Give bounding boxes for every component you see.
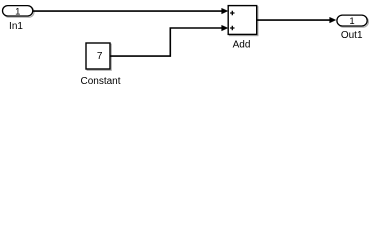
plus sign port 1 <box>230 11 234 15</box>
inport In1 <box>3 6 35 32</box>
wire In1 to Add input 1 <box>33 8 228 14</box>
svg-text:Constant: Constant <box>80 76 120 87</box>
svg-text:Add: Add <box>233 39 251 50</box>
wire Constant to Add input 2 <box>110 25 228 56</box>
outport Out1 <box>337 15 369 41</box>
svg-text:1: 1 <box>349 16 354 27</box>
svg-text:In1: In1 <box>9 21 23 32</box>
constant block Constant, value 7 <box>80 43 120 87</box>
svg-text:Out1: Out1 <box>341 30 363 41</box>
plus sign port 2 <box>230 26 234 30</box>
sum block Add <box>228 6 258 51</box>
svg-text:1: 1 <box>15 6 20 17</box>
wire Add output to Out1 <box>257 17 336 23</box>
svg-text:7: 7 <box>97 51 103 62</box>
